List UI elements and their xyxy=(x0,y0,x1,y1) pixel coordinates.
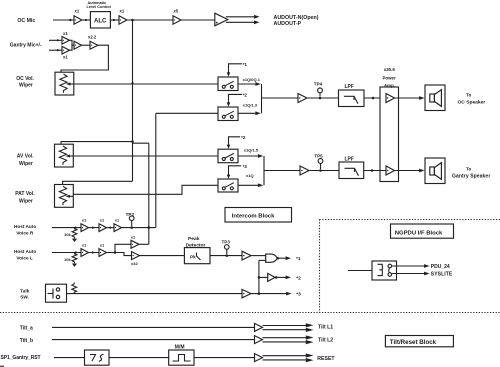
wire voice R to vertical B xyxy=(122,227,156,229)
svg-text:x5: x5 xyxy=(174,9,179,14)
svg-text:Intercom Block: Intercom Block xyxy=(232,214,275,220)
wire PAT wiper to switch S4 xyxy=(73,185,218,194)
svg-text:*2: *2 xyxy=(243,93,248,98)
junction dot on OC Mic input xyxy=(69,19,71,21)
svg-text:Voice L: Voice L xyxy=(16,256,32,261)
svg-text:SYSLITE: SYSLITE xyxy=(431,272,453,278)
svg-text:Host Auto: Host Auto xyxy=(14,249,36,254)
wire amp to ALC xyxy=(82,19,90,21)
svg-text:TP3: TP3 xyxy=(222,240,231,245)
op-amp x1 (after ALC) xyxy=(119,16,127,24)
wire host voice R into S2 xyxy=(156,112,218,114)
svg-text:PAT Vol.: PAT Vol. xyxy=(15,191,35,197)
ALC block (Automatic Level Control) xyxy=(90,12,110,28)
node bus junction dot xyxy=(131,19,134,22)
wire AUDOUT-P xyxy=(226,21,255,23)
op-amp gantry channel sum xyxy=(300,166,309,175)
op-amp RESET driver xyxy=(255,354,263,362)
svg-text:SW.: SW. xyxy=(20,295,29,300)
testpoint TP2 xyxy=(130,226,133,229)
junction dot before ALC xyxy=(85,19,87,21)
NGPDU I/F block dashed border xyxy=(320,219,500,221)
op-amp x1 (gantry mic -) xyxy=(62,46,70,54)
scan artifact mark bottom-left xyxy=(0,365,4,367)
switch S2 (*2 control) xyxy=(218,107,238,121)
junction dot before power amp (gantry) xyxy=(371,169,374,172)
wire stage1 to stage2 xyxy=(89,227,100,229)
wire peak detector to amp xyxy=(210,255,242,257)
wire x2.2 output to OC pot top xyxy=(61,45,108,72)
speaker OC xyxy=(425,85,445,111)
svg-text:x1Q/0Q.1: x1Q/0Q.1 xyxy=(243,77,261,82)
svg-text:Wiper: Wiper xyxy=(19,83,33,89)
wire talk line xyxy=(67,293,243,295)
svg-text:Wiper: Wiper xyxy=(19,161,33,167)
wire vertical B xyxy=(155,113,157,227)
svg-text:*1: *1 xyxy=(296,256,301,262)
wire bus stub to vertical A xyxy=(133,142,149,144)
op-amp x1 (gantry mic +) xyxy=(62,37,70,45)
relay K1 (PDU interface) xyxy=(372,261,397,280)
wire LPF 2 to power amp xyxy=(364,170,386,172)
wire Gantry Mic+ input xyxy=(49,39,62,41)
svg-text:x1: x1 xyxy=(120,9,125,14)
svg-text:LPF: LPF xyxy=(345,156,354,162)
op-amp peak det buffer xyxy=(242,251,251,260)
svg-text:PDU_24: PDU_24 xyxy=(431,264,450,270)
svg-text:10k: 10k xyxy=(64,257,71,262)
svg-text:AUDOUT-P: AUDOUT-P xyxy=(274,21,302,27)
svg-text:x1: x1 xyxy=(131,234,136,239)
svg-text:10k: 10k xyxy=(64,232,71,237)
wire buffer to gate xyxy=(251,255,267,257)
wire OC Mic input xyxy=(53,19,74,21)
wire to *2 buffer xyxy=(259,276,268,278)
svg-text:Wiper: Wiper xyxy=(19,198,33,204)
svg-text:LPF: LPF xyxy=(345,84,354,90)
svg-text:x32: x32 xyxy=(131,261,138,266)
junction smudge at bus crossing xyxy=(131,82,133,84)
svg-text:Tilt_a: Tilt_a xyxy=(20,326,33,332)
wire AV pot top to bus xyxy=(61,142,133,145)
op-amp *2 buffer xyxy=(268,273,275,281)
svg-text:SP1_Gantry_RST: SP1_Gantry_RST xyxy=(1,355,41,361)
svg-text:*3: *3 xyxy=(296,292,301,298)
ground (voice L) xyxy=(72,264,77,267)
svg-text:x1: x1 xyxy=(100,218,105,223)
wire *3 control into S4 xyxy=(229,166,242,176)
svg-text:Tilt_b: Tilt_b xyxy=(20,338,33,344)
wire S1 output to merge bus xyxy=(238,83,256,85)
junction dot before power amp xyxy=(372,97,375,100)
wire SYSLITE output xyxy=(392,273,425,275)
svg-text:TP4: TP4 xyxy=(314,81,323,86)
op-amp x32 xyxy=(132,252,140,260)
switch S1 (*1 control) xyxy=(218,77,238,91)
op-amp x2.2 xyxy=(90,41,98,49)
wire OC wiper to switch 1 xyxy=(74,83,218,85)
wire bus to PAT pot top xyxy=(63,181,133,184)
wire M/M to driver xyxy=(194,357,255,359)
ground (voice R) xyxy=(72,239,77,242)
wire vertical *-feedback xyxy=(258,260,260,293)
dashed separator full width xyxy=(0,312,500,314)
wire merge bus 2 to amp xyxy=(264,170,300,172)
svg-text:*2: *2 xyxy=(296,275,301,281)
wire gate to *1 output xyxy=(279,257,286,259)
svg-text:Tilt L1: Tilt L1 xyxy=(318,325,333,331)
wire power amp to gantry speaker xyxy=(395,170,420,172)
filter LPF (gantry channel) xyxy=(339,162,364,179)
junction dot after ALC xyxy=(113,19,115,21)
wire amp to x5 amp xyxy=(127,19,173,21)
svg-text:Voice R: Voice R xyxy=(16,231,33,236)
wire x32 to peak detector xyxy=(140,255,185,257)
wire S2 output to merge bus xyxy=(238,112,256,114)
svg-text:x1Q/1.5: x1Q/1.5 xyxy=(244,148,259,153)
junction dot bus at AV pot feed xyxy=(131,140,134,143)
svg-text:To: To xyxy=(466,166,471,171)
wire to x2.2 amp xyxy=(82,44,91,46)
wire merge bus 1 xyxy=(261,84,263,113)
label box NGPDU I/F Block xyxy=(391,224,454,238)
svg-text:x1: x1 xyxy=(75,9,80,14)
svg-text:x1: x1 xyxy=(63,31,68,36)
wire gantry mic summing xyxy=(70,40,75,45)
wire host voice R input xyxy=(52,227,81,229)
wire stage2 to stage3 xyxy=(107,227,115,229)
svg-text:Tilt L2: Tilt L2 xyxy=(318,338,333,344)
svg-text:x1: x1 xyxy=(115,218,120,223)
label box Tilt/Reset Block xyxy=(385,336,453,347)
op-amp gantry mic summing xyxy=(74,41,82,49)
wire stage1 to stage2 (L) xyxy=(89,252,100,254)
svg-text:Talk: Talk xyxy=(20,288,29,293)
svg-text:x1: x1 xyxy=(82,218,87,223)
svg-text:x2.2: x2.2 xyxy=(88,35,97,40)
op-amp x1 (voice R stage 1) xyxy=(81,224,89,232)
svg-text:x1: x1 xyxy=(100,243,105,248)
testpoint TP5 xyxy=(319,169,322,172)
speaker gantry xyxy=(425,158,445,184)
svg-text:*1: *1 xyxy=(243,62,248,67)
wire Tilt_a xyxy=(52,326,255,328)
op-amp talk buffer xyxy=(242,289,251,297)
wire host voice L input xyxy=(52,252,81,254)
switch Talk SW box xyxy=(46,284,67,302)
junction dot vertical A at host R row xyxy=(148,226,151,229)
wire to M/M xyxy=(109,357,169,359)
label box Intercom Block xyxy=(225,208,292,223)
op-amp x1 (OC Mic first buffer) xyxy=(74,16,82,24)
wire Tilt L1 double output xyxy=(263,325,307,327)
svg-text:OC Speaker: OC Speaker xyxy=(458,100,486,106)
wire *3 output xyxy=(251,293,287,295)
svg-text:Power: Power xyxy=(383,76,396,81)
svg-text:TP5: TP5 xyxy=(314,154,323,159)
svg-text:OC Mic: OC Mic xyxy=(17,18,35,24)
op-amp power amp OC xyxy=(386,94,395,103)
wire vertical A xyxy=(148,143,150,244)
svg-text:x30.6: x30.6 xyxy=(384,67,396,72)
wire x1 amp output to vertical A xyxy=(139,243,149,245)
svg-text:NGPDU I/F Block: NGPDU I/F Block xyxy=(395,230,443,236)
wire relay input xyxy=(348,270,372,272)
svg-text:Peak: Peak xyxy=(188,236,200,242)
svg-text:TP2: TP2 xyxy=(126,212,135,217)
svg-text:To: To xyxy=(466,93,471,98)
op-amp Tilt_a driver xyxy=(255,323,263,331)
op-amp x1 (voice L stage 1) xyxy=(81,249,89,257)
wire amp to LPF 2 xyxy=(309,170,339,172)
svg-text:ALC: ALC xyxy=(94,19,107,25)
gate *1 (OR) xyxy=(266,254,278,262)
svg-text:Gantry Mic+/-: Gantry Mic+/- xyxy=(10,42,42,48)
switch S4 (*3 control) xyxy=(218,179,238,192)
wire S4 output to merge bus 2 xyxy=(238,184,259,186)
op-amp x5 xyxy=(173,16,181,24)
wire voice L up-branch to x1 amp xyxy=(115,244,131,252)
wire voice L split junction xyxy=(107,252,116,254)
testpoint TP3 xyxy=(226,254,229,257)
op-amp x1 (voice R stage 2) xyxy=(99,224,107,232)
wire main mic bus (vertical) xyxy=(132,20,134,181)
op-amp U-lineout differential driver xyxy=(215,13,228,26)
wire *1 control into S1 xyxy=(229,64,243,73)
wire AV wiper to switch S3 xyxy=(73,155,218,157)
wire ALC to amp xyxy=(110,19,119,21)
wire voice L to x32 amp xyxy=(115,253,132,256)
wire S3 output to merge bus 2 xyxy=(238,155,259,157)
wire LPF to power amp xyxy=(364,97,386,99)
svg-text:Amp.: Amp. xyxy=(384,83,395,88)
svg-text:x1: x1 xyxy=(82,243,87,248)
wire RESET double output xyxy=(263,355,307,357)
svg-text:*2: *2 xyxy=(241,135,246,140)
op-amp x1 (voice L stage 2) xyxy=(99,249,107,257)
wire *2 output xyxy=(278,276,287,278)
svg-text:OC Vol.: OC Vol. xyxy=(16,76,34,82)
wire PDU_24 output xyxy=(392,265,425,267)
wire gate lower input xyxy=(259,259,266,261)
schmitt/opto input stage xyxy=(85,350,110,365)
op-amp x1 (voice R stage 3) xyxy=(114,224,122,232)
wire amp to LPF xyxy=(307,97,339,99)
svg-text:x1Q: x1Q xyxy=(246,173,254,178)
svg-text:Host Auto: Host Auto xyxy=(14,224,36,229)
svg-text:Level Control: Level Control xyxy=(87,5,111,9)
switch S3 (*2 control) xyxy=(218,149,238,163)
svg-text:RESET: RESET xyxy=(317,356,335,362)
op-amp power amp gantry xyxy=(386,166,395,175)
testpoint TP4 xyxy=(319,97,322,100)
svg-text:AV Vol.: AV Vol. xyxy=(17,154,34,160)
svg-text:Gantry Speaker: Gantry Speaker xyxy=(452,173,490,179)
wire *2 control into S3 xyxy=(229,137,241,146)
resistor pull-up on talk line xyxy=(72,283,77,294)
svg-text:x1: x1 xyxy=(63,55,68,60)
svg-text:Pk: Pk xyxy=(190,255,196,260)
wire power amp to OC speaker xyxy=(395,97,420,99)
power amp U-PA box xyxy=(380,87,399,182)
wire Gantry Mic- input xyxy=(49,49,62,51)
wire SP1_Gantry_RST input xyxy=(54,357,85,359)
wire Tilt L2 double output xyxy=(263,337,307,339)
wire *2 control into S2 xyxy=(229,94,243,103)
op-amp Tilt_b driver xyxy=(255,336,263,344)
wire merge bus 2 xyxy=(263,156,265,185)
svg-text:Tilt/Reset Block: Tilt/Reset Block xyxy=(390,339,437,346)
wire x5 amp to line driver xyxy=(181,19,215,21)
op-amp x1 (voice L to A) xyxy=(131,240,139,248)
filter LPF (OC channel) xyxy=(339,90,365,107)
op-amp OC channel sum xyxy=(298,94,307,103)
wire Tilt_b xyxy=(52,339,255,341)
svg-text:*3: *3 xyxy=(243,164,248,169)
wire merge bus to amp xyxy=(262,97,299,99)
wire AUDOUT-N xyxy=(226,16,255,18)
svg-text:x1Q/1.3: x1Q/1.3 xyxy=(243,102,258,107)
